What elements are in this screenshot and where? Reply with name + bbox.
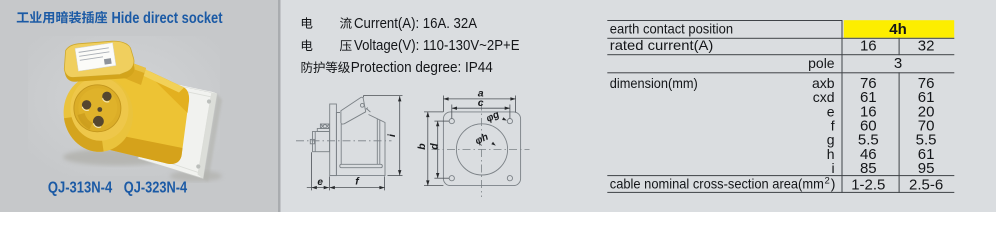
front view: socket circle (456, 124, 507, 175)
spec line 1 Chinese (302, 17, 313, 28)
svg-text:85: 85 (860, 160, 877, 177)
table horizontal lines (607, 20, 954, 193)
table yellow highlight 4h (844, 20, 954, 38)
svg-text:dimension(mm): dimension(mm) (610, 75, 698, 91)
svg-text:Current(A): 16A. 32A: Current(A): 16A. 32A (354, 16, 477, 32)
front view: flange plate (443, 112, 520, 186)
svg-text:c: c (478, 97, 484, 109)
side view: lid flap (341, 97, 366, 124)
panel divider line (278, 0, 281, 212)
svg-text:32: 32 (918, 38, 935, 55)
dimension i (363, 96, 402, 176)
photo: lid label sticker (75, 43, 116, 71)
svg-text:cable nominal cross-section ar: cable nominal cross-section area(mm (610, 176, 824, 192)
dimension e (307, 152, 329, 190)
dimension d (434, 121, 449, 178)
svg-text:i: i (831, 160, 834, 176)
photo: ground shadow (63, 149, 173, 166)
title Chinese: 工业用暗装插座 (17, 12, 29, 22)
svg-text:1-2.5: 1-2.5 (851, 176, 885, 193)
svg-text:QJ-313N-4: QJ-313N-4 (48, 179, 113, 196)
svg-text:): ) (831, 176, 836, 192)
left panel background (0, 0, 278, 212)
svg-text:2: 2 (825, 176, 830, 187)
svg-text:pole: pole (808, 55, 835, 71)
spec line 3 Chinese (302, 61, 313, 73)
side view: inner recess lines (340, 119, 383, 168)
front view: screw holes (449, 119, 512, 181)
spec line 2 Chinese (302, 40, 313, 51)
svg-text:Voltage(V): 110-130V~2P+E: Voltage(V): 110-130V~2P+E (354, 38, 520, 54)
side view: lid latch key (366, 108, 371, 112)
dimension b (424, 112, 443, 186)
photo: plate back shadow (203, 94, 222, 183)
svg-text:Protection degree: IP44: Protection degree: IP44 (351, 60, 493, 76)
svg-text:Hide direct socket: Hide direct socket (112, 10, 223, 27)
side view: socket body outline (330, 113, 385, 176)
side view: flange plate (330, 104, 337, 176)
side view: rear cable gland (310, 124, 329, 152)
front view: centerlines (432, 103, 530, 198)
svg-text:d: d (428, 143, 440, 150)
svg-text:95: 95 (918, 160, 935, 177)
table vertical lines (842, 20, 900, 193)
svg-text:rated current(A): rated current(A) (610, 37, 714, 53)
photo: white mounting flange plate (138, 80, 217, 179)
side view: centerline (296, 140, 392, 142)
svg-text:QJ-323N-4: QJ-323N-4 (124, 179, 188, 196)
svg-text:e: e (317, 177, 323, 188)
dimension c (452, 105, 510, 119)
photo: lid hinge knuckle (124, 61, 146, 85)
photo: socket face (59, 71, 138, 157)
svg-text:3: 3 (894, 55, 902, 72)
photo: socket body (94, 64, 189, 164)
svg-text:2.5-6: 2.5-6 (909, 176, 943, 193)
photo: lid flap (64, 41, 134, 82)
svg-text:16: 16 (860, 38, 877, 55)
svg-text:4h: 4h (889, 21, 907, 38)
dimension f (330, 176, 385, 190)
svg-text:earth contact position: earth contact position (610, 21, 733, 37)
dimension a (443, 96, 515, 113)
photo: contact holes (82, 92, 112, 127)
svg-text:b: b (416, 143, 428, 150)
